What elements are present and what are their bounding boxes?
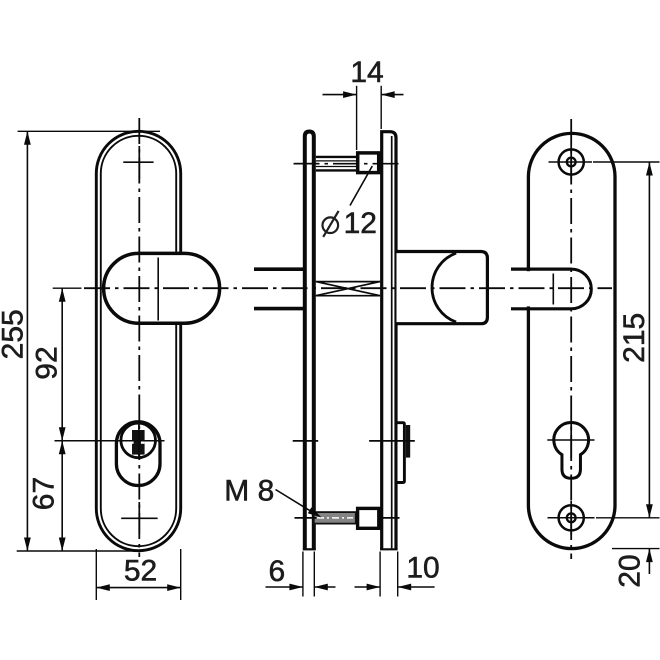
M8 leader with arrow bbox=[276, 490, 318, 516]
dim 14 arrows bbox=[323, 94, 357, 96]
upper bolt center line bbox=[294, 163, 400, 165]
plate inner outline bbox=[101, 136, 176, 546]
dim 67 line bbox=[61, 441, 63, 551]
svg-text:14: 14 bbox=[350, 56, 383, 89]
cylinder axis line bbox=[55, 440, 165, 442]
svg-text:6: 6 bbox=[268, 555, 285, 588]
solid center tick at left top screw bbox=[138, 146, 140, 179]
gap in plate edge for handle bbox=[525, 271, 535, 306]
key way bar bbox=[132, 430, 145, 455]
handle stub lines bbox=[254, 267, 305, 271]
cylinder housing bump bbox=[398, 423, 405, 483]
handle neck bbox=[511, 268, 572, 271]
dim 92 line bbox=[61, 288, 63, 441]
solid center tick at left cylinder bbox=[138, 424, 140, 458]
knob dome arc bbox=[432, 253, 456, 322]
cylinder height marks bbox=[293, 440, 319, 442]
dim 6 extension lines bbox=[302, 552, 304, 597]
solid center tick at right top screw bbox=[570, 145, 572, 180]
outer plate side view (6mm) bbox=[305, 132, 314, 550]
dim 20 arrow bbox=[648, 549, 650, 574]
dim bottom extension line bbox=[17, 550, 142, 552]
svg-text:M 8: M 8 bbox=[224, 474, 274, 507]
left plate vertical center line bbox=[138, 118, 140, 557]
dim 6 arrows bbox=[266, 586, 303, 588]
top screw mark bbox=[123, 161, 153, 163]
knob (front view) bbox=[104, 253, 220, 323]
spindle box with X bbox=[316, 281, 380, 283]
cylinder protruding bar bbox=[406, 425, 410, 458]
cylinder circle bbox=[121, 423, 156, 458]
profile cylinder keyhole bbox=[554, 423, 589, 479]
dim 10 arrows bbox=[355, 586, 381, 588]
bottom screw mark bbox=[121, 517, 157, 519]
dim 52 extension lines bbox=[95, 549, 97, 600]
plate outline bbox=[528, 133, 615, 548]
inner plate side view (10mm) bbox=[382, 132, 396, 550]
svg-text:10: 10 bbox=[406, 552, 439, 585]
svg-text:67: 67 bbox=[28, 477, 61, 510]
knob vertical mark bbox=[157, 258, 159, 321]
svg-text:255: 255 bbox=[0, 309, 30, 359]
handle axis center line bbox=[84, 287, 612, 289]
handle vertical mark bbox=[552, 274, 554, 305]
dim 215 extension lines bbox=[593, 161, 660, 163]
outer plate bottom end bbox=[303, 548, 316, 550]
dim 10 extension lines bbox=[379, 552, 381, 597]
svg-text:12: 12 bbox=[344, 207, 377, 240]
lower bolt center marks bbox=[295, 517, 317, 519]
dim 92 extension line (knob axis) bbox=[53, 287, 82, 289]
solid center tick at keyhole bbox=[570, 424, 572, 458]
dim 52 line bbox=[96, 587, 180, 589]
solid center tick at left bottom screw bbox=[138, 502, 140, 534]
svg-text:215: 215 bbox=[618, 313, 651, 363]
inner plate inner line bbox=[391, 136, 393, 549]
bottom screw hole bbox=[559, 505, 584, 530]
right plate vertical center line bbox=[570, 119, 572, 559]
inner plate bottom end bbox=[380, 548, 398, 550]
cylinder escutcheon oval bbox=[116, 422, 160, 486]
Ø12 leader bbox=[350, 166, 372, 206]
knob side view bbox=[397, 252, 488, 324]
lower sleeve bbox=[358, 508, 379, 528]
dim 255 line bbox=[26, 131, 28, 551]
svg-text:92: 92 bbox=[31, 346, 64, 379]
dim 255 top extension line bbox=[18, 130, 160, 132]
dim 215 line bbox=[648, 162, 650, 518]
handle end cap bbox=[572, 269, 592, 309]
svg-text:20: 20 bbox=[614, 554, 647, 587]
dim 14 extension lines bbox=[356, 86, 358, 150]
solid center tick at right bottom screw bbox=[570, 501, 572, 535]
upper bolt shaft bbox=[316, 156, 357, 158]
upper sleeve (Ø12) bbox=[358, 153, 379, 173]
svg-text:52: 52 bbox=[124, 555, 157, 588]
lower bolt shaft (M8) bbox=[314, 512, 356, 524]
plate outer outline bbox=[96, 131, 180, 550]
Ø symbol bbox=[323, 217, 339, 233]
top screw hole bbox=[559, 149, 584, 174]
